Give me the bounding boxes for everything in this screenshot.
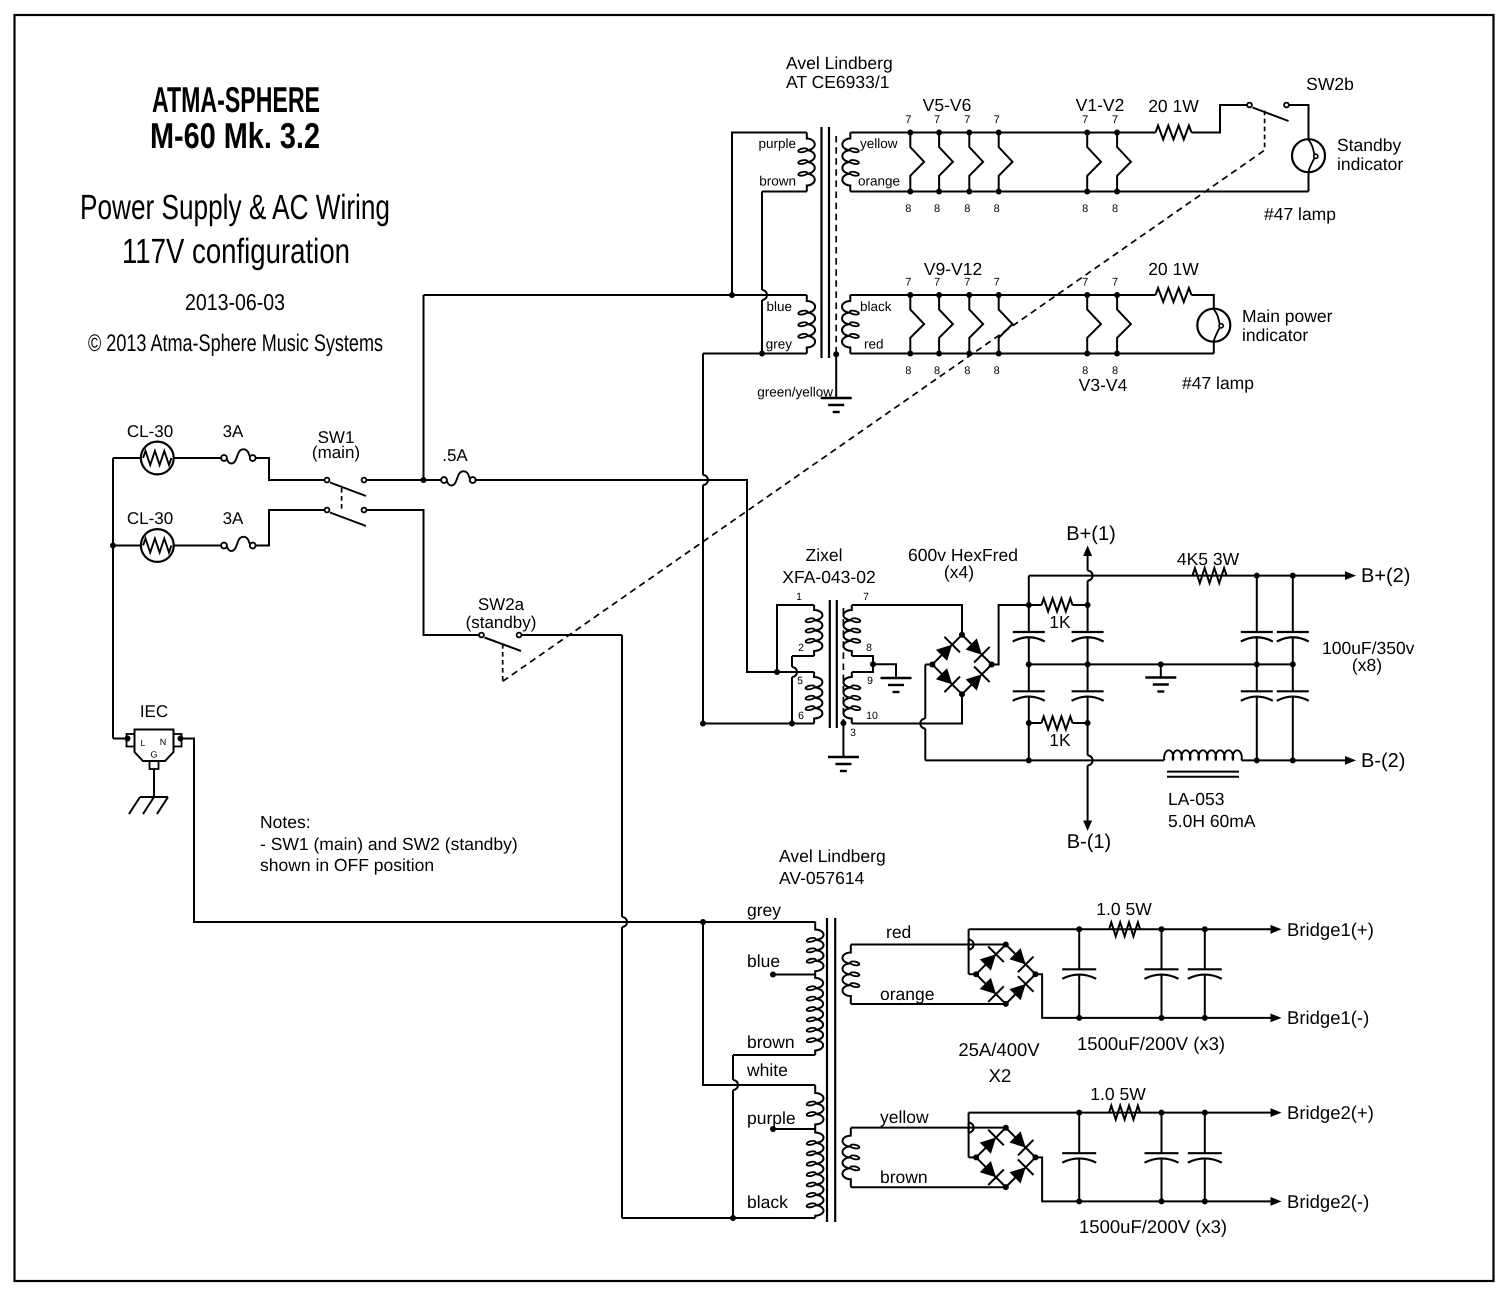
svg-text:Zixel: Zixel bbox=[806, 545, 843, 565]
svg-text:Standby: Standby bbox=[1337, 135, 1401, 155]
svg-text:8: 8 bbox=[905, 203, 911, 215]
capacitor bank2 cap D bbox=[1277, 690, 1309, 692]
wire 8-9 to ground bbox=[873, 664, 896, 678]
svg-text:8: 8 bbox=[994, 365, 1000, 377]
svg-text:9: 9 bbox=[867, 675, 873, 687]
wire orange lead bbox=[851, 1003, 1006, 1005]
ground T1 screen bbox=[821, 397, 852, 399]
transformer T2 secondary 2 (9-10) bbox=[844, 672, 852, 724]
tube heater filament V1-V2 #1 row1 bbox=[1087, 133, 1101, 192]
wire filter col1 bbox=[1028, 576, 1030, 632]
wire standby bottom run bbox=[622, 1217, 815, 1219]
junction B2 cap bot #2 bbox=[1159, 1198, 1165, 1204]
wire CL30 row1 left lead bbox=[113, 457, 141, 459]
svg-text:orange: orange bbox=[880, 984, 935, 1004]
svg-text:.5A: .5A bbox=[442, 446, 468, 465]
wire CL30 to fuse row1 bbox=[174, 457, 224, 459]
wire IEC L bbox=[113, 738, 127, 740]
junction screen bbox=[833, 351, 839, 357]
junction bank2 mid x1292 bbox=[1290, 661, 1296, 667]
svg-text:Main power: Main power bbox=[1242, 306, 1333, 326]
capacitor 1500uF B2 #1 bbox=[1078, 1113, 1080, 1154]
wire B- rail bbox=[1029, 759, 1164, 761]
svg-text:orange: orange bbox=[858, 174, 900, 189]
ground zixel CT bbox=[881, 677, 912, 679]
wire blue tap bbox=[773, 974, 815, 976]
svg-text:brown: brown bbox=[759, 174, 796, 189]
wire red lead bbox=[851, 944, 1006, 946]
junction B2 cap top #2 bbox=[1159, 1110, 1165, 1116]
junction B2 cap bot #1 bbox=[1076, 1198, 1082, 1204]
svg-text:10: 10 bbox=[866, 710, 878, 722]
terminal purple tap bbox=[770, 1126, 776, 1132]
svg-text:7: 7 bbox=[905, 114, 911, 126]
svg-text:1500uF/200V (x3): 1500uF/200V (x3) bbox=[1079, 1216, 1227, 1237]
svg-text:yellow: yellow bbox=[860, 136, 898, 151]
transformer T2 secondary 1 (7-8) bbox=[843, 605, 851, 656]
svg-text:2: 2 bbox=[798, 642, 804, 654]
wire filter col3 bbox=[1256, 576, 1258, 632]
capacitor 1500uF B2 #3 bbox=[1204, 1113, 1206, 1154]
wire resistor to lamp2 bbox=[1192, 295, 1214, 309]
svg-text:1500uF/200V (x3): 1500uF/200V (x3) bbox=[1077, 1033, 1225, 1054]
wire pin10 to bridge bbox=[852, 694, 962, 724]
arrow B-(2) bbox=[1345, 756, 1356, 765]
lamp main power indicator bbox=[1197, 309, 1230, 342]
svg-text:Notes:: Notes: bbox=[260, 812, 311, 832]
tube heater filament V1-V2 #2 row1 bbox=[1117, 133, 1131, 192]
svg-text:CL-30: CL-30 bbox=[127, 422, 173, 441]
junction col1 bridge in bbox=[1026, 602, 1032, 608]
svg-text:7: 7 bbox=[964, 114, 970, 126]
svg-text:8: 8 bbox=[964, 203, 970, 215]
svg-text:20 1W: 20 1W bbox=[1148, 259, 1199, 279]
svg-text:red: red bbox=[864, 337, 884, 352]
svg-text:7: 7 bbox=[863, 591, 869, 603]
wire purple tap bbox=[773, 1128, 815, 1130]
svg-text:(standby): (standby) bbox=[466, 613, 537, 632]
wire pin8 to ground node bbox=[852, 656, 873, 664]
svg-text:shown in OFF position: shown in OFF position bbox=[260, 855, 434, 875]
wire zixel pin1 riser bbox=[777, 605, 814, 672]
transformer T1 primary 1 (purple/brown) bbox=[807, 133, 815, 192]
wire brown tap bbox=[733, 1054, 815, 1056]
resistor 4K5 3W bbox=[1193, 568, 1227, 583]
wire pin9 to ground node bbox=[852, 664, 873, 672]
T3 core bbox=[826, 918, 828, 1222]
fuse 3A upper bbox=[221, 455, 227, 461]
capacitor bank1 cap B bbox=[1013, 690, 1045, 692]
tube heater filament V9-V12 #3 row2 bbox=[969, 295, 983, 354]
wire heater row2 bottom rail bbox=[850, 353, 1214, 355]
svg-text:1K: 1K bbox=[1049, 730, 1071, 750]
svg-text:M-60 Mk. 3.2: M-60 Mk. 3.2 bbox=[150, 115, 320, 156]
rectifier bridge B1 25A/400V bbox=[976, 945, 1035, 1004]
T1 screen dashed bbox=[835, 136, 837, 354]
wire grey lead bbox=[703, 353, 807, 355]
junction B2 cap top #1 bbox=[1076, 1110, 1082, 1116]
inductor LA-053 choke bbox=[1164, 750, 1242, 760]
junction col1 mid bbox=[1026, 661, 1032, 667]
arrow Bridge2- bbox=[1271, 1197, 1282, 1206]
svg-text:Bridge2(+): Bridge2(+) bbox=[1287, 1102, 1374, 1123]
T2 core bbox=[829, 600, 831, 728]
tube heater filament V5-V6 #1 row1 bbox=[910, 133, 924, 192]
svg-text:117V configuration: 117V configuration bbox=[122, 232, 350, 271]
thermistor CL-30 upper bbox=[141, 442, 174, 475]
transformer T3 primary B (white/purple/black) bbox=[815, 1085, 823, 1129]
svg-text:X2: X2 bbox=[989, 1065, 1012, 1086]
wire zixel pin6 lead bbox=[703, 723, 814, 725]
svg-text:Avel Lindberg: Avel Lindberg bbox=[779, 846, 886, 866]
svg-text:indicator: indicator bbox=[1337, 154, 1403, 174]
wire SW1A to fuse .5A bbox=[366, 479, 441, 481]
tube heater filament V9-V12 #2 row2 bbox=[939, 295, 953, 354]
svg-text:Bridge2(-): Bridge2(-) bbox=[1287, 1191, 1369, 1212]
arrow Bridge1+ bbox=[1271, 925, 1282, 934]
wire SW2b to lamp bbox=[1289, 105, 1309, 139]
transformer T3 primary A (grey/blue/brown) bbox=[815, 922, 823, 975]
svg-text:L: L bbox=[141, 738, 146, 748]
svg-text:7: 7 bbox=[994, 277, 1000, 289]
junction col2 1k2 bbox=[1085, 720, 1091, 726]
svg-text:B-(2): B-(2) bbox=[1361, 750, 1405, 772]
capacitor 1500uF B2 #2 bbox=[1161, 1113, 1163, 1154]
tube heater filament V5-V6 #4 row1 bbox=[999, 133, 1013, 192]
junction bank2 bot x1256 bbox=[1254, 757, 1260, 763]
svg-text:8: 8 bbox=[866, 642, 872, 654]
wire B+(1) stem bbox=[1087, 556, 1089, 571]
wire heater row1 top rail bbox=[850, 132, 1155, 134]
capacitor bank1 cap C bbox=[1072, 631, 1104, 633]
junction IEC N bbox=[178, 736, 184, 742]
svg-text:grey: grey bbox=[747, 900, 781, 920]
wire L bus vertical bbox=[112, 458, 114, 739]
svg-text:(x4): (x4) bbox=[944, 562, 974, 582]
svg-text:IEC: IEC bbox=[140, 702, 168, 721]
transformer T1 secondary 1 (yellow/orange) bbox=[842, 133, 850, 192]
svg-text:7: 7 bbox=[934, 114, 940, 126]
wire screen to ground bbox=[835, 354, 837, 398]
wire B1 plus riser bbox=[969, 973, 977, 975]
junction N neutral bus bbox=[700, 919, 706, 925]
svg-text:B+(2): B+(2) bbox=[1361, 565, 1410, 587]
switch SW1 pole B bbox=[325, 508, 330, 513]
IEC connector body bbox=[135, 730, 174, 762]
mech link diagonal dashed bbox=[503, 150, 1265, 681]
transformer T1 primary 2 (blue/grey) bbox=[807, 295, 815, 354]
B+(1) arrow bbox=[1083, 546, 1092, 557]
fuse 3A lower bbox=[221, 543, 227, 549]
svg-text:- SW1 (main) and SW2 (standby): - SW1 (main) and SW2 (standby) bbox=[260, 834, 518, 854]
junction B1 cap top #1 bbox=[1076, 926, 1082, 932]
svg-text:7: 7 bbox=[1112, 277, 1118, 289]
wire pin7 to bridge bbox=[852, 605, 962, 635]
svg-text:blue: blue bbox=[747, 951, 780, 971]
svg-text:3A: 3A bbox=[223, 422, 244, 441]
wire mid ground stem bbox=[1160, 664, 1162, 677]
junction bank2 top x1292 bbox=[1290, 573, 1296, 579]
svg-text:#47 lamp: #47 lamp bbox=[1264, 204, 1336, 224]
junction bank2 mid x1256 bbox=[1254, 661, 1260, 667]
capacitor bank2 cap B bbox=[1241, 690, 1273, 692]
transformer T3 secondary 2 (yellow/brown) bbox=[842, 1128, 850, 1188]
svg-text:grey: grey bbox=[766, 337, 793, 352]
arrow B+(2) bbox=[1345, 571, 1356, 580]
svg-text:red: red bbox=[886, 922, 911, 942]
wire zixel pin5 lead bbox=[777, 671, 814, 673]
svg-text:XFA-043-02: XFA-043-02 bbox=[782, 567, 875, 587]
svg-text:V1-V2: V1-V2 bbox=[1076, 95, 1125, 115]
junction B2 cap top #3 bbox=[1202, 1110, 1208, 1116]
tube heater filament V9-V12 #4 row2 bbox=[999, 295, 1013, 354]
tube heater filament V9-V12 #1 row2 bbox=[910, 295, 924, 354]
svg-text:AV-057614: AV-057614 bbox=[779, 868, 865, 888]
wire primary feed row bbox=[424, 294, 807, 296]
svg-text:blue: blue bbox=[766, 299, 792, 314]
svg-text:4K5 3W: 4K5 3W bbox=[1177, 549, 1240, 569]
arrow Bridge1- bbox=[1271, 1014, 1282, 1023]
arrow Bridge2+ bbox=[1271, 1108, 1282, 1117]
svg-text:8: 8 bbox=[905, 365, 911, 377]
svg-text:8: 8 bbox=[964, 365, 970, 377]
svg-text:7: 7 bbox=[1082, 277, 1088, 289]
wire SW1B to SW2a bbox=[366, 510, 479, 635]
capacitor bank2 cap C bbox=[1277, 631, 1309, 633]
switch SW2b bbox=[1247, 103, 1252, 108]
svg-text:3A: 3A bbox=[223, 509, 244, 528]
junction bank2 bot x1292 bbox=[1290, 757, 1296, 763]
svg-text:Bridge1(+): Bridge1(+) bbox=[1287, 919, 1374, 940]
junction col1 1k2 bbox=[1026, 720, 1032, 726]
wire bridge plus out bbox=[992, 605, 1029, 665]
svg-text:purple: purple bbox=[747, 1108, 796, 1128]
capacitor bank1 cap D bbox=[1072, 690, 1104, 692]
wire standby drop bbox=[621, 635, 623, 917]
svg-text:Bridge1(-): Bridge1(-) bbox=[1287, 1007, 1369, 1028]
ground IEC earth bbox=[140, 796, 168, 798]
svg-text:8: 8 bbox=[934, 203, 940, 215]
wire bridge minus out bbox=[925, 664, 932, 666]
wire heater feed riser bbox=[423, 295, 425, 480]
svg-text:N: N bbox=[160, 737, 167, 747]
svg-text:B+(1): B+(1) bbox=[1066, 523, 1115, 545]
svg-text:5.0H 60mA: 5.0H 60mA bbox=[1168, 811, 1256, 831]
junction mid ground bbox=[1158, 661, 1164, 667]
svg-text:indicator: indicator bbox=[1242, 325, 1308, 345]
transformer T3 secondary 1 (red/orange) bbox=[843, 945, 851, 1005]
transformer T2 primary 1 (1-2) bbox=[814, 605, 822, 656]
svg-text:8: 8 bbox=[934, 365, 940, 377]
resistor 20 1W row1 bbox=[1156, 126, 1192, 140]
IEC ground stem bbox=[153, 769, 155, 797]
svg-text:Avel Lindberg: Avel Lindberg bbox=[786, 53, 893, 73]
svg-text:Power Supply & AC Wiring: Power Supply & AC Wiring bbox=[80, 188, 390, 227]
switch SW1 pole A bbox=[325, 478, 330, 483]
SW2b link dashed bbox=[1264, 111, 1266, 151]
svg-text:ATMA-SPHERE: ATMA-SPHERE bbox=[152, 79, 320, 120]
junction B1 cap bot #3 bbox=[1202, 1015, 1208, 1021]
tube heater filament V3-V4 #2 row2 bbox=[1117, 295, 1131, 354]
wire CL30 to fuse row2 bbox=[174, 545, 224, 547]
wire brown to grey link bbox=[761, 192, 763, 291]
svg-text:2013-06-03: 2013-06-03 bbox=[185, 289, 285, 315]
wire brown lead B2 bbox=[851, 1186, 1006, 1188]
svg-text:CL-30: CL-30 bbox=[127, 509, 173, 528]
junction 8-9 bbox=[870, 661, 876, 667]
wire CL30 row2 left lead bbox=[113, 545, 141, 547]
wire B2 minus drop bbox=[1036, 1157, 1272, 1201]
svg-text:7: 7 bbox=[994, 114, 1000, 126]
svg-text:black: black bbox=[860, 299, 892, 314]
svg-text:white: white bbox=[746, 1060, 788, 1080]
ground mid rail bbox=[1145, 676, 1176, 678]
wire heater row1 bottom rail bbox=[850, 191, 1308, 193]
junction col2 1k1 bbox=[1085, 602, 1091, 608]
transformer T2 primary 2 (5-6) bbox=[814, 672, 822, 724]
switch SW2a bbox=[479, 633, 484, 638]
transformer T1 secondary 2 (black/red) bbox=[842, 295, 850, 354]
svg-text:V5-V6: V5-V6 bbox=[923, 95, 972, 115]
wire resistor to SW2b bbox=[1192, 105, 1248, 133]
svg-text:8: 8 bbox=[994, 203, 1000, 215]
svg-text:7: 7 bbox=[1082, 114, 1088, 126]
wire zixel pin2-6 link bbox=[791, 656, 793, 667]
junction brown-grey bbox=[759, 351, 765, 357]
wire IEC N bbox=[182, 739, 816, 923]
wire pin3 to ground bbox=[842, 723, 844, 757]
resistor 1.0 5W B1 bbox=[1109, 922, 1140, 936]
capacitor bank2 cap A bbox=[1241, 631, 1273, 633]
junction bank2 top x1256 bbox=[1254, 573, 1260, 579]
svg-text:yellow: yellow bbox=[880, 1107, 929, 1127]
resistor 20 1W row2 bbox=[1156, 288, 1192, 302]
wire lamp2 to row2 return bbox=[1213, 342, 1215, 354]
svg-text:brown: brown bbox=[880, 1167, 928, 1187]
junction zixel pin6 bbox=[700, 721, 706, 727]
capacitor bank1 cap A bbox=[1013, 631, 1045, 633]
junction zixel pin2-6 bbox=[789, 721, 795, 727]
junction B1 cap bot #1 bbox=[1076, 1015, 1082, 1021]
wire heater row2 top rail bbox=[850, 294, 1155, 296]
wire SW2a out bbox=[521, 634, 622, 636]
capacitor 1500uF B1 #3 bbox=[1204, 929, 1206, 969]
svg-text:1: 1 bbox=[796, 591, 802, 603]
svg-text:purple: purple bbox=[758, 136, 796, 151]
wire yellow lead bbox=[851, 1127, 1006, 1129]
rectifier bridge HexFred bbox=[932, 635, 991, 694]
resistor 1.0 5W B2 bbox=[1109, 1106, 1140, 1120]
wire lamp to row1 return bbox=[1308, 172, 1310, 191]
wire neutral bus drop bbox=[702, 354, 704, 476]
T1 core bbox=[820, 127, 822, 358]
junction B1 cap top #3 bbox=[1202, 926, 1208, 932]
wire white tap bbox=[703, 922, 815, 1085]
svg-text:7: 7 bbox=[905, 277, 911, 289]
junction col1 bminus bbox=[1026, 757, 1032, 763]
SW1 gang link dashed bbox=[341, 488, 343, 512]
svg-text:(x8): (x8) bbox=[1352, 655, 1382, 675]
svg-text:7: 7 bbox=[1112, 114, 1118, 126]
wire .5A out bbox=[476, 480, 777, 672]
svg-text:1.0 5W: 1.0 5W bbox=[1090, 1084, 1146, 1104]
svg-text:1K: 1K bbox=[1049, 612, 1071, 632]
svg-text:6: 6 bbox=[798, 710, 804, 722]
svg-text:20 1W: 20 1W bbox=[1148, 96, 1199, 116]
wire B- rail right bbox=[1242, 759, 1347, 761]
lamp standby indicator bbox=[1292, 139, 1325, 172]
svg-text:black: black bbox=[747, 1192, 788, 1212]
svg-text:(main): (main) bbox=[312, 443, 360, 462]
tube heater filament V5-V6 #3 row1 bbox=[969, 133, 983, 192]
junction brown-black bbox=[730, 1215, 736, 1221]
wire B1 minus drop bbox=[1036, 974, 1272, 1018]
svg-text:© 2013 Atma-Sphere Music Syste: © 2013 Atma-Sphere Music Systems bbox=[88, 330, 383, 357]
resistor 1K upper bbox=[1029, 604, 1042, 606]
junction zixel pin3 bbox=[840, 720, 846, 726]
junction IEC L bbox=[125, 736, 131, 742]
wire mid ground rail bbox=[1029, 663, 1293, 665]
T2 screen dashed bbox=[842, 608, 844, 722]
SW2a link dashed bbox=[502, 644, 504, 681]
junction .5A tap bbox=[421, 477, 427, 483]
rectifier bridge B2 25A/400V bbox=[976, 1128, 1035, 1187]
ground zixel screen bbox=[828, 756, 859, 758]
fuse .5A bbox=[441, 477, 447, 483]
wire B2 plus riser bbox=[969, 1156, 977, 1158]
thermistor CL-30 lower bbox=[141, 529, 174, 562]
wire brown lead bbox=[762, 191, 807, 193]
svg-text:8: 8 bbox=[1112, 203, 1118, 215]
B-(1) arrow bbox=[1083, 821, 1092, 832]
junction CL30 row2 bbox=[110, 543, 116, 549]
junction zixel pin1-5 bbox=[774, 669, 780, 675]
tube heater filament V5-V6 #2 row1 bbox=[939, 133, 953, 192]
svg-text:V3-V4: V3-V4 bbox=[1079, 375, 1128, 395]
junction B1 cap bot #2 bbox=[1159, 1015, 1165, 1021]
junction purple feed bbox=[729, 292, 735, 298]
svg-text:#47 lamp: #47 lamp bbox=[1182, 373, 1254, 393]
resistor 1K lower bbox=[1029, 722, 1042, 724]
junction B2 cap bot #3 bbox=[1202, 1198, 1208, 1204]
svg-text:B-(1): B-(1) bbox=[1067, 831, 1111, 853]
svg-text:V9-V12: V9-V12 bbox=[924, 259, 982, 279]
svg-text:25A/400V: 25A/400V bbox=[958, 1039, 1040, 1060]
svg-text:3: 3 bbox=[850, 727, 856, 739]
wire purple feed bbox=[732, 133, 807, 296]
wire filter col4 bbox=[1292, 576, 1294, 632]
svg-text:5: 5 bbox=[797, 675, 803, 687]
wire fuse2 to SW1 lower bbox=[256, 510, 325, 546]
svg-text:SW2b: SW2b bbox=[1306, 74, 1354, 94]
capacitor 1500uF B1 #1 bbox=[1078, 929, 1080, 969]
svg-text:brown: brown bbox=[747, 1032, 795, 1052]
tube heater filament V3-V4 #1 row2 bbox=[1087, 295, 1101, 354]
wire fuse1 to SW1 upper bbox=[256, 458, 325, 480]
svg-text:LA-053: LA-053 bbox=[1168, 789, 1224, 809]
terminal blue tap bbox=[770, 972, 776, 978]
svg-text:8: 8 bbox=[1082, 203, 1088, 215]
capacitor 1500uF B1 #2 bbox=[1161, 929, 1163, 969]
junction col2 mid bbox=[1085, 661, 1091, 667]
wire bridge minus to rail bbox=[925, 759, 1029, 761]
svg-text:SW2a: SW2a bbox=[478, 595, 525, 614]
svg-text:1.0 5W: 1.0 5W bbox=[1096, 899, 1152, 919]
junction B1 cap top #2 bbox=[1159, 926, 1165, 932]
svg-text:G: G bbox=[150, 750, 157, 760]
wire zixel pin2 lead bbox=[792, 655, 814, 657]
svg-text:AT CE6933/1: AT CE6933/1 bbox=[786, 72, 889, 92]
